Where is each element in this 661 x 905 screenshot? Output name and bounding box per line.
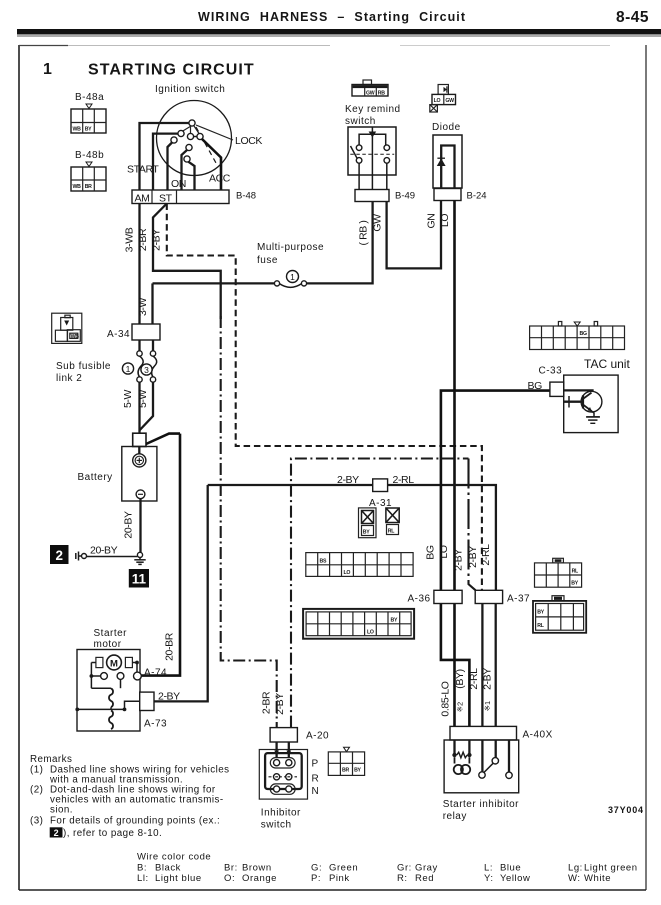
svg-text:WB: WB xyxy=(71,334,80,340)
svg-text:BY: BY xyxy=(537,610,544,616)
wire 3-W down to A-34 xyxy=(151,283,153,324)
svg-text:B-48: B-48 xyxy=(236,191,256,202)
svg-text:WB: WB xyxy=(73,184,82,190)
svg-text:A-40X: A-40X xyxy=(523,730,553,741)
svg-text:GN: GN xyxy=(426,214,438,229)
inhibitor contacts row R xyxy=(269,774,298,780)
svg-text:(BY): (BY) xyxy=(454,669,466,688)
svg-text:1: 1 xyxy=(126,364,131,374)
svg-text:switch: switch xyxy=(261,820,292,831)
wire 20-BR down to starter xyxy=(142,434,181,676)
svg-text:), refer to page 8-10.: ), refer to page 8-10. xyxy=(63,828,162,839)
svg-text:Starter inhibitor: Starter inhibitor xyxy=(443,799,519,810)
svg-text:LO: LO xyxy=(439,214,451,227)
svg-text:ON: ON xyxy=(171,178,186,190)
svg-text:fuse: fuse xyxy=(257,255,278,266)
grounding point 2 black box xyxy=(50,545,69,564)
connector icon RL BY right xyxy=(535,558,582,587)
svg-text:WB: WB xyxy=(73,127,82,133)
svg-text:LO: LO xyxy=(344,570,351,576)
wire from contact to 2-BY pin xyxy=(168,143,173,191)
wire 2-RL from A-37 to A-40X xyxy=(481,604,483,727)
svg-text:BS: BS xyxy=(320,559,327,565)
svg-text:1: 1 xyxy=(290,272,295,282)
ignition switch fan lines xyxy=(182,125,233,163)
inhibitor contacts row P xyxy=(270,758,295,768)
svg-text:Multi-purpose: Multi-purpose xyxy=(257,242,324,253)
svg-text:(2): (2) xyxy=(30,784,43,795)
svg-text:2-BY: 2-BY xyxy=(482,668,494,690)
svg-text:P: P xyxy=(312,759,319,770)
TAC unit box xyxy=(564,375,618,433)
ignition switch body circle xyxy=(157,101,232,176)
svg-text:GW: GW xyxy=(372,214,384,232)
content frame left border xyxy=(18,45,20,890)
svg-text:relay: relay xyxy=(443,811,467,822)
svg-text:A-36: A-36 xyxy=(408,594,431,605)
svg-text:N: N xyxy=(312,786,320,797)
svg-text:AM: AM xyxy=(135,193,150,205)
wire 5-W left to battery xyxy=(138,382,140,433)
svg-text:A-20: A-20 xyxy=(306,731,329,742)
svg-text:Green: Green xyxy=(329,863,358,874)
svg-text:Ll:: Ll: xyxy=(137,873,149,884)
wire 5-W right to battery xyxy=(140,382,153,430)
content frame top border xyxy=(19,45,610,47)
connector C-33 box xyxy=(550,382,564,396)
remarks block xyxy=(30,754,229,839)
svg-text:B-49: B-49 xyxy=(395,191,415,202)
wire A-31 line left segment 2-BY xyxy=(208,484,373,486)
svg-text:R: R xyxy=(312,774,320,785)
svg-text:link 2: link 2 xyxy=(56,373,82,384)
svg-text:2-BR: 2-BR xyxy=(137,228,149,251)
svg-text:LO: LO xyxy=(434,98,441,104)
svg-text:2: 2 xyxy=(55,548,63,563)
svg-text:Yellow: Yellow xyxy=(500,873,530,884)
svg-text:White: White xyxy=(584,873,611,884)
svg-text:Y:: Y: xyxy=(484,873,494,884)
svg-text:20-BY: 20-BY xyxy=(123,511,135,539)
svg-text:BY: BY xyxy=(354,768,361,774)
svg-text:BR: BR xyxy=(85,184,92,190)
inhibitor contacts row N xyxy=(269,784,298,794)
svg-text:BY: BY xyxy=(391,618,398,624)
inhibitor switch wires into box xyxy=(274,742,291,758)
wire 2-BY down to A-37 jog xyxy=(469,459,476,591)
TAC connector strip top right xyxy=(530,322,625,350)
svg-text:Ignition switch: Ignition switch xyxy=(155,84,225,95)
starter motor box xyxy=(77,650,140,732)
connector A-36 box xyxy=(434,590,462,603)
page header rule xyxy=(17,29,661,37)
junction block strip upper xyxy=(306,553,413,577)
svg-text:2-RL: 2-RL xyxy=(468,668,480,690)
wire lower contact xyxy=(189,162,195,190)
svg-text:Diode: Diode xyxy=(432,122,461,133)
svg-text:G:: G: xyxy=(311,863,322,874)
svg-text:2-RL: 2-RL xyxy=(480,544,492,566)
starter solenoid pull-in coil xyxy=(109,689,113,708)
circled 3 xyxy=(141,364,152,375)
relay internals xyxy=(452,740,512,779)
svg-text:LOCK: LOCK xyxy=(235,135,262,147)
svg-text:A-73: A-73 xyxy=(144,719,167,730)
svg-text:sion.: sion. xyxy=(50,804,73,815)
starter motor M and brushes xyxy=(96,655,132,670)
wire ACC thick xyxy=(202,139,221,190)
diode connector icon xyxy=(430,85,456,113)
wire GW from B-49 to diode xyxy=(387,201,441,269)
key remind switch box xyxy=(348,127,396,175)
connector B-48b xyxy=(71,162,106,191)
svg-text:Wire color code: Wire color code xyxy=(137,852,211,863)
svg-text:START: START xyxy=(127,164,159,176)
wire ON contact xyxy=(182,150,188,190)
starter inhibitor relay box xyxy=(444,740,519,793)
svg-text:ACC: ACC xyxy=(209,173,231,185)
svg-text:5-W: 5-W xyxy=(122,389,134,408)
body ground symbol left xyxy=(76,552,87,561)
wire 2-BY from A-37 to A-40X xyxy=(495,604,497,727)
wire fuse feed line xyxy=(153,282,275,284)
connector A-20 box xyxy=(270,728,297,742)
svg-text:0.85-LO: 0.85-LO xyxy=(440,681,452,716)
svg-text:Battery: Battery xyxy=(78,472,113,483)
multi-purpose fuse symbol xyxy=(274,271,306,288)
svg-text:BY: BY xyxy=(85,127,92,133)
svg-text:B-48b: B-48b xyxy=(75,150,104,161)
svg-text:C-33: C-33 xyxy=(539,366,563,377)
svg-text:switch: switch xyxy=(345,116,376,127)
connector B-24 box xyxy=(434,189,461,201)
svg-text:Black: Black xyxy=(155,863,181,874)
svg-text:3-WB: 3-WB xyxy=(124,227,136,252)
svg-text:LO: LO xyxy=(438,545,450,558)
svg-text:Orange: Orange xyxy=(242,873,277,884)
battery plus terminal xyxy=(133,447,146,468)
svg-text:BY: BY xyxy=(571,581,578,587)
wire 2-BY dashed from B-48 xyxy=(167,204,482,591)
connector icon BY RL right lower xyxy=(533,596,586,633)
svg-text:O:: O: xyxy=(224,873,235,884)
wire 3-WB from B-48 AM down to A-34 xyxy=(138,204,140,325)
ignition switch contacts xyxy=(171,130,203,162)
svg-text:vehicles with an automatic tra: vehicles with an automatic transmis- xyxy=(50,794,224,805)
connector A-40X box xyxy=(450,726,517,740)
svg-text:2-RL: 2-RL xyxy=(393,474,415,486)
wire 20-BY from battery minus xyxy=(139,499,141,553)
svg-text:※2: ※2 xyxy=(456,702,465,712)
svg-text:A-37: A-37 xyxy=(507,594,530,605)
svg-text:8-45: 8-45 xyxy=(616,9,649,26)
svg-text:2-BY: 2-BY xyxy=(467,546,479,568)
svg-text:Lg:: Lg: xyxy=(568,863,583,874)
svg-text:Inhibitor: Inhibitor xyxy=(261,808,301,819)
svg-text:B-48a: B-48a xyxy=(75,92,104,103)
fusible link 3 on wire 5-W right xyxy=(150,340,156,382)
svg-text:B-24: B-24 xyxy=(467,191,487,202)
svg-text:B:: B: xyxy=(137,863,147,874)
wire from fuse to B-49 xyxy=(307,202,373,284)
svg-text:20-BY: 20-BY xyxy=(90,545,118,557)
TAC transistor xyxy=(564,390,602,423)
svg-text:3-W: 3-W xyxy=(137,297,149,316)
svg-text:Blue: Blue xyxy=(500,863,521,874)
battery minus terminal xyxy=(136,490,145,499)
svg-text:Starter: Starter xyxy=(94,628,128,639)
content frame bottom border xyxy=(19,889,646,891)
connector B-48 box xyxy=(132,190,229,205)
svg-text:L:: L: xyxy=(484,863,493,874)
connector icon BY below A-31 xyxy=(359,508,377,538)
fusible link 1 on wire 5-W left xyxy=(137,340,143,382)
svg-text:2-BY: 2-BY xyxy=(274,693,286,715)
svg-text:WIRING HARNESS – Starting: WIRING HARNESS – Starting Circuit xyxy=(198,10,466,24)
starter solenoid hold-in coil xyxy=(109,711,113,730)
wire BG from TAC to down run xyxy=(441,391,550,727)
key remind switch connector icon xyxy=(352,80,388,97)
svg-text:For details of grounding point: For details of grounding points (ex.: xyxy=(50,816,220,827)
svg-text:2-BY: 2-BY xyxy=(337,474,359,486)
starter motor leads and contacts xyxy=(90,661,142,689)
wire 2-BY from A-73 up to A-31 line xyxy=(154,485,208,701)
svg-text:Pink: Pink xyxy=(329,873,350,884)
connector B-49 box xyxy=(355,190,389,202)
svg-text:ST: ST xyxy=(159,193,173,205)
svg-text:Light green: Light green xyxy=(584,863,638,874)
svg-text:Brown: Brown xyxy=(242,863,272,874)
svg-text:A-34: A-34 xyxy=(107,329,130,340)
svg-text:RL: RL xyxy=(388,529,395,535)
svg-text:Gr:: Gr: xyxy=(397,863,412,874)
svg-text:1: 1 xyxy=(43,61,52,78)
svg-text:BG: BG xyxy=(580,331,587,337)
connector icon BR BY xyxy=(328,747,364,775)
svg-text:motor: motor xyxy=(94,639,122,650)
svg-text:BY: BY xyxy=(363,530,370,536)
svg-text:(1): (1) xyxy=(30,764,43,775)
svg-text:11: 11 xyxy=(132,572,147,587)
junction block strip lower xyxy=(303,609,414,639)
wire A-31 line right segment 2-RL xyxy=(388,485,496,590)
wire 2-BR from B-48 ST diagonal down xyxy=(153,204,221,320)
sub fusible link icon xyxy=(52,313,82,343)
svg-text:GW: GW xyxy=(366,91,375,97)
circled 1 xyxy=(122,363,133,374)
wire 20-BY ground run xyxy=(87,556,138,558)
svg-text:Light blue: Light blue xyxy=(155,873,202,884)
wire from START contact xyxy=(153,134,178,190)
svg-text:Br:: Br: xyxy=(224,863,238,874)
wire color code block xyxy=(137,852,638,885)
svg-text:( RB ): ( RB ) xyxy=(358,220,370,245)
svg-text:37Y004: 37Y004 xyxy=(608,805,644,815)
solenoid junction xyxy=(75,701,139,711)
wire LO long run from B-24 to A-40X xyxy=(453,201,456,727)
svg-text:W:: W: xyxy=(568,873,581,884)
inhibitor switch outer box xyxy=(259,750,307,800)
battery box xyxy=(122,447,157,502)
connector icon RL below A-31 xyxy=(386,508,399,535)
ignition switch wiper pivot contact xyxy=(189,120,195,126)
svg-text:2-BY: 2-BY xyxy=(453,549,465,571)
wire dash-dot AT link from inhibitor column to A-37 xyxy=(291,459,469,728)
svg-text:STARTING CIRCUIT: STARTING CIRCUIT xyxy=(88,62,255,79)
svg-text:(3): (3) xyxy=(30,816,43,827)
ground node at battery xyxy=(134,552,145,564)
svg-text:2-BR: 2-BR xyxy=(260,691,272,714)
connector A-31 box xyxy=(373,479,388,492)
svg-text:TAC unit: TAC unit xyxy=(584,357,630,371)
connector B-48a xyxy=(71,104,106,133)
wire from battery plus to 20-BR xyxy=(146,434,180,444)
grounding point 11 black box xyxy=(129,569,149,588)
svg-text:M: M xyxy=(110,658,118,669)
svg-text:2-BY: 2-BY xyxy=(151,229,163,251)
svg-text:※1: ※1 xyxy=(483,701,492,711)
diode symbol internals xyxy=(437,146,455,201)
wire 2-BR dash-dot continuation to inhibitor xyxy=(221,316,277,728)
content frame right border xyxy=(645,45,647,890)
diode box xyxy=(433,135,462,188)
svg-text:Red: Red xyxy=(415,873,434,884)
svg-text:2: 2 xyxy=(54,828,59,838)
svg-text:GW: GW xyxy=(445,98,454,104)
grounding point 2 inline black box xyxy=(50,827,63,837)
svg-text:5-W: 5-W xyxy=(137,389,149,408)
svg-text:20-BR: 20-BR xyxy=(164,632,176,661)
svg-text:RB: RB xyxy=(378,91,385,97)
inhibitor switch inner body xyxy=(265,753,302,789)
connector A-73 box xyxy=(140,692,154,710)
svg-text:LO: LO xyxy=(367,630,374,636)
svg-text:Key remind: Key remind xyxy=(345,104,401,115)
svg-text:R:: R: xyxy=(397,873,408,884)
svg-text:3: 3 xyxy=(144,365,149,375)
svg-text:BR: BR xyxy=(342,768,349,774)
connector A-34 box xyxy=(132,324,160,340)
connector A-37 box xyxy=(475,590,502,603)
battery terminal connector box xyxy=(133,433,146,446)
svg-text:A-74: A-74 xyxy=(144,668,167,679)
svg-text:Gray: Gray xyxy=(415,863,438,874)
svg-text:Sub fusible: Sub fusible xyxy=(56,361,111,372)
key remind switch internals xyxy=(350,127,394,190)
svg-text:P:: P: xyxy=(311,873,321,884)
svg-text:RL: RL xyxy=(537,623,544,629)
wire AM feed to pivot xyxy=(140,123,190,190)
svg-text:RL: RL xyxy=(572,569,579,575)
svg-text:BG: BG xyxy=(425,545,437,560)
